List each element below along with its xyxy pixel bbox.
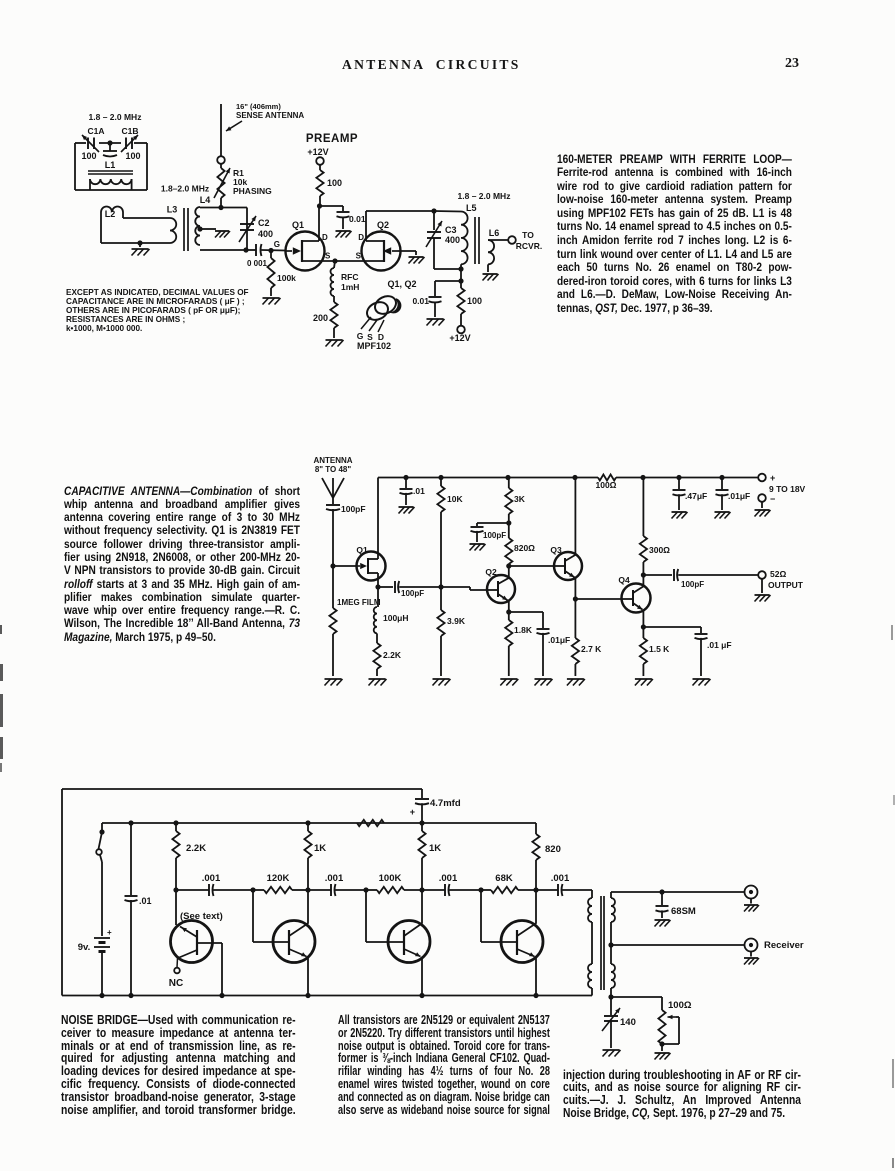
svg-text:0.01: 0.01 (349, 214, 366, 224)
svg-text:.001: .001 (202, 873, 221, 884)
svg-text:0.01: 0.01 (412, 296, 429, 306)
svg-text:.001: .001 (551, 873, 570, 884)
svg-text:SENSE ANTENNA: SENSE ANTENNA (236, 111, 304, 120)
svg-text:0 001: 0 001 (247, 259, 268, 268)
svg-text:.47μF: .47μF (685, 491, 707, 501)
svg-text:1.5 K: 1.5 K (649, 644, 670, 654)
svg-text:9 TO 18V: 9 TO 18V (769, 484, 806, 494)
svg-text:1.8 – 2.0 MHz: 1.8 – 2.0 MHz (458, 191, 511, 201)
svg-text:+12V: +12V (307, 147, 328, 157)
svg-text:100: 100 (327, 178, 342, 188)
svg-text:.001: .001 (325, 873, 344, 884)
svg-text:C3: C3 (445, 225, 457, 235)
svg-text:.01 μF: .01 μF (707, 640, 732, 650)
svg-text:RFC: RFC (341, 272, 358, 282)
svg-text:3.9K: 3.9K (447, 616, 466, 626)
svg-text:Q4: Q4 (618, 575, 630, 585)
svg-text:2.2K: 2.2K (186, 843, 206, 854)
svg-text:Q2: Q2 (377, 220, 389, 230)
svg-text:D: D (358, 233, 364, 242)
svg-text:L6: L6 (489, 228, 500, 238)
svg-text:Q1: Q1 (292, 220, 304, 230)
svg-text:1.8–2.0 MHz: 1.8–2.0 MHz (161, 184, 209, 194)
svg-text:G: G (274, 240, 280, 249)
svg-text:1mH: 1mH (341, 282, 359, 292)
svg-text:S: S (356, 252, 362, 261)
svg-text:68SM: 68SM (671, 906, 696, 917)
svg-text:.01μF: .01μF (548, 635, 570, 645)
svg-text:+12V: +12V (449, 333, 470, 343)
svg-text:300Ω: 300Ω (649, 545, 670, 555)
svg-text:D: D (322, 233, 328, 242)
svg-text:100K: 100K (379, 873, 402, 884)
svg-text:C2: C2 (258, 218, 270, 228)
svg-text:Q2: Q2 (485, 567, 497, 577)
svg-text:1MEG FILM: 1MEG FILM (337, 598, 381, 607)
svg-text:PREAMP: PREAMP (306, 133, 358, 145)
svg-text:MPF102: MPF102 (357, 341, 391, 351)
svg-text:52Ω: 52Ω (770, 569, 786, 579)
svg-text:TO: TO (522, 230, 534, 240)
svg-text:(See text): (See text) (180, 911, 223, 922)
svg-text:NC: NC (169, 978, 183, 989)
svg-text:68K: 68K (495, 873, 513, 884)
svg-text:200: 200 (313, 313, 328, 323)
svg-text:100: 100 (467, 296, 482, 306)
svg-text:L4: L4 (200, 195, 211, 205)
svg-text:G: G (357, 331, 364, 341)
svg-text:Q3: Q3 (550, 545, 562, 555)
svg-text:ANTENNA: ANTENNA (313, 456, 352, 465)
svg-text:120K: 120K (267, 873, 290, 884)
svg-text:L1: L1 (105, 160, 116, 170)
svg-text:100Ω: 100Ω (596, 480, 617, 490)
svg-text:.01: .01 (139, 896, 152, 906)
svg-text:100: 100 (81, 151, 96, 161)
svg-text:C1B: C1B (121, 126, 138, 136)
svg-text:1.8 – 2.0 MHz: 1.8 – 2.0 MHz (89, 112, 142, 122)
svg-text:−: − (770, 494, 775, 504)
svg-text:820: 820 (545, 844, 561, 855)
svg-text:100: 100 (125, 151, 140, 161)
svg-text:100pF: 100pF (483, 531, 506, 540)
svg-text:+: + (107, 928, 112, 937)
svg-text:1K: 1K (429, 843, 441, 854)
svg-text:10K: 10K (447, 494, 463, 504)
svg-text:400: 400 (258, 229, 273, 239)
svg-text:.01μF: .01μF (728, 491, 750, 501)
svg-text:S: S (325, 252, 331, 261)
svg-text:100pF: 100pF (401, 589, 424, 598)
svg-text:2.2K: 2.2K (383, 650, 402, 660)
svg-text:L5: L5 (466, 203, 477, 213)
svg-text:L2: L2 (105, 209, 116, 219)
svg-text:400: 400 (445, 235, 460, 245)
svg-text:8" TO 48": 8" TO 48" (315, 465, 352, 474)
svg-text:100pF: 100pF (681, 580, 704, 589)
svg-text:100μH: 100μH (383, 613, 409, 623)
svg-text:+: + (770, 473, 775, 483)
svg-text:PHASING: PHASING (233, 186, 272, 196)
svg-text:16" (406mm): 16" (406mm) (236, 102, 281, 111)
svg-text:Receiver: Receiver (764, 940, 804, 951)
svg-text:OUTPUT: OUTPUT (768, 580, 804, 590)
svg-text:100pF: 100pF (341, 504, 366, 514)
svg-text:3K: 3K (514, 494, 526, 504)
svg-text:C1A: C1A (87, 126, 104, 136)
svg-text:100k: 100k (277, 273, 296, 283)
svg-text:Q1, Q2: Q1, Q2 (387, 279, 416, 289)
svg-text:.001: .001 (439, 873, 458, 884)
svg-text:9v.: 9v. (78, 942, 91, 953)
svg-text:+: + (410, 807, 415, 817)
svg-text:L3: L3 (167, 205, 178, 215)
svg-text:1K: 1K (314, 843, 326, 854)
svg-text:1.8K: 1.8K (514, 625, 533, 635)
svg-text:140: 140 (620, 1017, 636, 1028)
svg-text:Q1: Q1 (356, 545, 368, 555)
svg-text:RCVR.: RCVR. (516, 241, 542, 251)
svg-text:.01: .01 (413, 486, 425, 496)
svg-text:820Ω: 820Ω (514, 543, 535, 553)
svg-text:2.7 K: 2.7 K (581, 644, 602, 654)
svg-text:100Ω: 100Ω (668, 1000, 692, 1011)
svg-text:4.7mfd: 4.7mfd (430, 798, 461, 809)
